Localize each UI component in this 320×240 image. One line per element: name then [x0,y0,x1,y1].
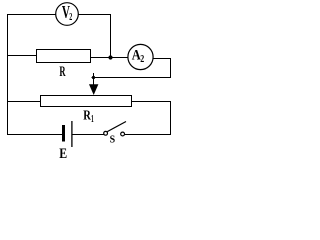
switch S right contact circle [121,132,125,136]
node A dot [108,55,112,59]
switch S left contact circle [104,131,108,135]
node B junction cross tick [93,73,95,78]
rheostat slider arrow stem [93,77,95,86]
svg-text:E: E [59,145,67,159]
wire left vertical [7,14,9,135]
svg-text:2: 2 [69,12,72,23]
svg-text:R: R [59,62,65,79]
voltmeter U-V2 circle [56,3,79,26]
wire loop right vertical down to slider line [170,58,172,78]
wire vertical from top corner down to node A [110,14,112,58]
svg-text:S: S [110,134,116,146]
battery E negative plate (thick short) [62,125,65,141]
node B dot [92,76,95,79]
wire switch to bottom right corner [125,134,172,136]
wire slider horizontal line to node B [92,77,172,79]
switch S blade [107,122,126,132]
rheostat R1 box [41,96,132,107]
ammeter U-A2 circle [128,44,153,69]
resistor R box [37,50,91,63]
wire bottom left to battery [7,134,62,136]
wire resistor R to node A to ammeter A2 [90,57,128,59]
svg-text:2: 2 [140,53,144,64]
wire V2 right to top-right corner [78,14,111,16]
wire left to rheostat R1 [7,101,41,103]
wire battery to switch [72,134,104,136]
svg-text:1: 1 [91,113,94,124]
wire A2 right to loop corner [153,58,171,60]
wire right vertical to bottom [170,101,172,135]
wire rheostat R1 right side [131,101,171,103]
battery E positive plate (long thin) [71,121,73,147]
rheostat slider arrowhead [89,84,98,95]
wire left to resistor R [7,55,37,57]
svg-text:A: A [132,46,141,62]
wire top left to V2 [7,14,56,16]
